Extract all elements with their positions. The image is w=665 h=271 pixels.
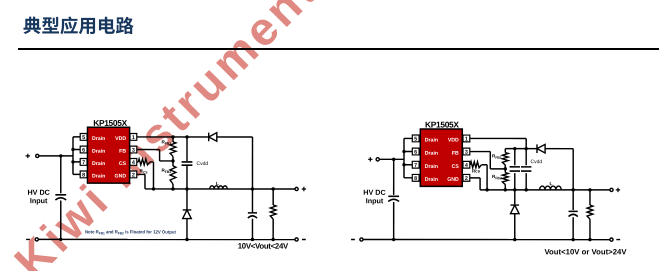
svg-text:RFB1: RFB1 [161,139,171,145]
svg-text:1: 1 [465,137,468,143]
svg-text:RFB2: RFB2 [492,174,502,180]
svg-text:8: 8 [414,176,417,182]
svg-text:Input: Input [366,196,384,205]
svg-text:Drain: Drain [425,164,438,170]
svg-text:1: 1 [132,135,135,141]
svg-text:Input: Input [30,196,48,205]
svg-text:Drain: Drain [92,174,105,180]
svg-text:L: L [216,181,219,187]
svg-text:5: 5 [82,135,85,141]
svg-text:RFB1: RFB1 [492,154,502,160]
svg-text:CS: CS [119,161,127,167]
svg-text:Drain: Drain [92,161,105,167]
svg-text:4: 4 [132,160,135,166]
svg-text:Drain: Drain [425,151,438,157]
svg-text:VDD: VDD [115,136,126,142]
svg-text:GND: GND [115,174,127,180]
svg-text:2: 2 [132,173,135,179]
svg-text:Drain: Drain [92,136,105,142]
svg-text:Cvdd: Cvdd [530,159,542,165]
svg-text:8: 8 [82,173,85,179]
svg-text:3: 3 [132,148,135,154]
svg-text:GND: GND [447,177,459,183]
svg-text:7: 7 [82,160,85,166]
svg-text:FB: FB [452,151,459,157]
svg-text:FB: FB [119,149,126,155]
svg-text:5: 5 [414,137,417,143]
svg-text:RFB2: RFB2 [161,168,171,174]
svg-text:RCS: RCS [139,168,148,174]
svg-text:7: 7 [414,163,417,169]
svg-text:CS: CS [452,164,460,170]
svg-text:Rcs: Rcs [472,169,481,174]
svg-text:Drain: Drain [92,149,105,155]
svg-text:2: 2 [465,176,468,182]
svg-text:6: 6 [414,150,417,156]
svg-text:Drain: Drain [425,138,438,144]
svg-text:Cvdd: Cvdd [196,161,208,167]
svg-text:L: L [549,181,552,187]
svg-text:3: 3 [465,150,468,156]
svg-text:Vout<10V or Vout>24V: Vout<10V or Vout>24V [544,247,627,256]
svg-text:KP1505X: KP1505X [425,120,459,130]
svg-text:10V<Vout<24V: 10V<Vout<24V [238,242,289,251]
svg-text:Note RFB1 and RFB2 is Floated: Note RFB1 and RFB2 is Floated for 12V Ou… [85,229,176,235]
svg-text:VDD: VDD [448,138,459,144]
svg-text:6: 6 [82,148,85,154]
svg-text:KP1505X: KP1505X [93,118,127,128]
svg-text:4: 4 [465,163,468,169]
svg-text:Drain: Drain [425,177,438,183]
